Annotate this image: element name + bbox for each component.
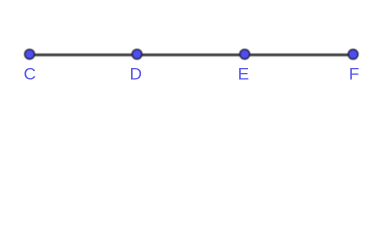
svg-text:F: F	[349, 65, 359, 84]
svg-text:E: E	[238, 65, 249, 84]
svg-text:C: C	[24, 65, 36, 84]
svg-text:D: D	[130, 65, 142, 84]
